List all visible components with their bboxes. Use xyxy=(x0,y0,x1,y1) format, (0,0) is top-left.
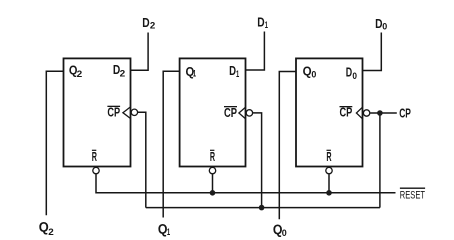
svg-text:D: D xyxy=(257,14,264,29)
svg-text:Q: Q xyxy=(39,220,49,235)
svg-text:CP: CP xyxy=(399,106,411,121)
svg-text:Q: Q xyxy=(303,63,312,78)
svg-text:0: 0 xyxy=(382,21,387,32)
svg-text:D: D xyxy=(142,15,149,30)
svg-text:1: 1 xyxy=(236,69,240,80)
svg-text:1: 1 xyxy=(265,20,269,31)
svg-text:2: 2 xyxy=(48,227,54,238)
svg-text:D: D xyxy=(229,63,236,78)
svg-text:1: 1 xyxy=(193,69,197,80)
svg-text:R: R xyxy=(210,149,216,164)
svg-text:2: 2 xyxy=(150,21,155,32)
svg-text:0: 0 xyxy=(311,70,316,81)
svg-text:2: 2 xyxy=(77,69,83,80)
svg-text:R: R xyxy=(326,149,332,164)
svg-text:D: D xyxy=(346,65,352,80)
svg-text:1: 1 xyxy=(167,227,171,238)
svg-text:RESET: RESET xyxy=(400,189,425,201)
svg-text:0: 0 xyxy=(282,228,287,239)
svg-text:R: R xyxy=(92,149,98,164)
svg-text:2: 2 xyxy=(120,68,126,79)
svg-text:0: 0 xyxy=(352,71,357,82)
